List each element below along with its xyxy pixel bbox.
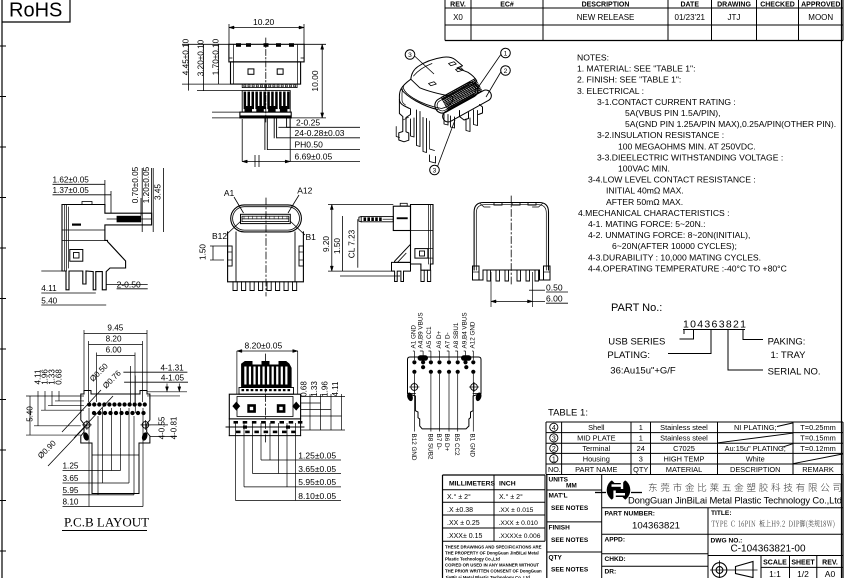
svg-text:PART No.:: PART No.:	[611, 302, 662, 314]
svg-text:B1: B1	[306, 232, 317, 242]
svg-text:MAT'L: MAT'L	[549, 493, 568, 500]
svg-text:B1 GND: B1 GND	[469, 434, 476, 458]
svg-text:4-1.31: 4-1.31	[161, 363, 185, 372]
pinout pads	[412, 360, 416, 364]
table diagonals	[777, 423, 793, 427]
svg-text:0.68: 0.68	[300, 381, 309, 397]
svg-text:QTY: QTY	[633, 465, 648, 474]
front view top-center	[229, 38, 304, 150]
svg-text:36:Au15u"+G/F: 36:Au15u"+G/F	[610, 366, 676, 377]
svg-text:THE PRIOR WRITTEN CONSENT OF D: THE PRIOR WRITTEN CONSENT OF DongGuan	[445, 569, 542, 574]
revision table	[445, 40, 843, 42]
svg-text:SCALE: SCALE	[763, 560, 787, 567]
svg-text:100VAC MIN.: 100VAC MIN.	[618, 164, 670, 174]
svg-text:X.° ± 2°: X.° ± 2°	[499, 493, 523, 501]
svg-text:COPIED OR USED IN ANY MANNER W: COPIED OR USED IN ANY MANNER WITHOUT	[445, 563, 539, 568]
svg-text:Au:15u" PLATING;: Au:15u" PLATING;	[725, 444, 786, 453]
svg-text:DR:: DR:	[605, 569, 617, 576]
side view dims	[104, 180, 106, 207]
svg-text:4.11: 4.11	[41, 284, 57, 293]
leader PLATING	[668, 330, 711, 354]
svg-text:TABLE 1:: TABLE 1:	[548, 408, 588, 419]
svg-text:24-0.28±0.03: 24-0.28±0.03	[295, 128, 345, 138]
svg-text:4.MECHANICAL CHARACTERISTICS :: 4.MECHANICAL CHARACTERISTICS :	[578, 208, 730, 218]
svg-text:THESE DRAWINGS AND SPECIFICATI: THESE DRAWINGS AND SPECIFICATIONS ARE	[445, 544, 542, 549]
svg-text:A1 GND: A1 GND	[411, 325, 418, 349]
pcb dims right 4-1.31 4-1.05	[130, 366, 132, 405]
dim 10.20	[228, 24, 230, 44]
svg-text:A12 GND: A12 GND	[470, 321, 477, 348]
svg-text:8.20±0.05: 8.20±0.05	[245, 341, 283, 351]
svg-text:3.20±0.10: 3.20±0.10	[197, 39, 206, 76]
leader PAKING	[743, 330, 763, 340]
svg-text:A0: A0	[825, 569, 836, 578]
svg-text:SERIAL NO.: SERIAL NO.	[768, 367, 821, 378]
svg-text:.XX ± 0.015: .XX ± 0.015	[499, 507, 534, 514]
svg-text:INCH: INCH	[499, 481, 516, 488]
svg-text:Housing: Housing	[583, 454, 610, 463]
svg-text:HIGH TEMP: HIGH TEMP	[664, 454, 705, 463]
callout circle 3 bottom	[430, 165, 440, 175]
svg-text:USB SERIES: USB SERIES	[608, 337, 665, 348]
company cell with logo	[602, 507, 843, 509]
svg-text:B5 CC2: B5 CC2	[453, 434, 460, 457]
svg-text:8.20: 8.20	[106, 335, 122, 344]
callout circle 2	[501, 66, 511, 76]
svg-text:A9,B4 VBUS: A9,B4 VBUS	[461, 312, 468, 348]
svg-text:CHECKED: CHECKED	[760, 2, 795, 9]
pin-out footprint view	[406, 355, 482, 429]
svg-text:AFTER 50mΩ MAX.: AFTER 50mΩ MAX.	[606, 197, 683, 207]
side view left	[62, 202, 152, 290]
svg-text:A7 D-: A7 D-	[444, 332, 451, 348]
svg-text:3: 3	[639, 454, 643, 463]
svg-text:2: 2	[552, 446, 556, 453]
svg-text:FINISH: FINISH	[549, 525, 571, 532]
svg-text:.XXX ± 0.010: .XXX ± 0.010	[499, 520, 539, 527]
svg-text:4.45±0.10: 4.45±0.10	[182, 38, 191, 75]
svg-text:10.20: 10.20	[253, 17, 275, 27]
svg-text:.X ±0.38: .X ±0.38	[447, 507, 473, 514]
isometric terminal hatch	[441, 78, 476, 97]
svg-text:01/23'21: 01/23'21	[675, 13, 706, 22]
svg-text:10.00: 10.00	[310, 70, 320, 92]
svg-text:.XXX± 0.15: .XXX± 0.15	[447, 533, 482, 540]
svg-text:1.50: 1.50	[199, 244, 208, 260]
dims 4.45 3.20 1.70 left side	[182, 43, 229, 45]
svg-text:3-4.LOW LEVEL CONTACT RESISTAN: 3-4.LOW LEVEL CONTACT RESISTANCE :	[588, 175, 756, 185]
dims 0.50 6.00	[529, 289, 545, 291]
svg-text:PAKING:: PAKING:	[768, 337, 806, 348]
svg-text:3.65: 3.65	[63, 474, 79, 483]
svg-text:REV.: REV.	[450, 2, 466, 9]
svg-text:PLATING:: PLATING:	[607, 350, 650, 361]
side view right mirrored	[359, 203, 433, 281]
svg-text:3. ELECTRICAL :: 3. ELECTRICAL :	[577, 86, 644, 96]
pinout top labels	[413, 351, 415, 360]
svg-text:B12: B12	[212, 231, 227, 241]
pinout bottom labels	[413, 374, 415, 432]
svg-text:MID PLATE: MID PLATE	[577, 434, 616, 443]
svg-text:1.96: 1.96	[321, 381, 330, 397]
svg-text:1.33: 1.33	[310, 381, 319, 397]
svg-text:JTJ: JTJ	[728, 13, 741, 22]
svg-text:6.00: 6.00	[106, 345, 122, 354]
pcb layout view	[81, 391, 150, 494]
svg-text:DESCRIPTION: DESCRIPTION	[730, 465, 781, 474]
svg-text:PART NAME: PART NAME	[575, 465, 617, 474]
svg-text:A6 D+: A6 D+	[436, 331, 443, 349]
svg-text:NEW RELEASE: NEW RELEASE	[577, 13, 635, 22]
svg-text:MILLIMETERS: MILLIMETERS	[449, 481, 496, 488]
svg-text:3-1.CONTACT CURRENT RATING :: 3-1.CONTACT CURRENT RATING :	[597, 97, 736, 107]
svg-text:3: 3	[433, 168, 437, 175]
svg-text:MATERIAL: MATERIAL	[666, 465, 702, 474]
svg-text:5A(VBUS PIN 1.5A/PIN),: 5A(VBUS PIN 1.5A/PIN),	[625, 108, 721, 118]
svg-text:QTY: QTY	[549, 555, 563, 562]
svg-text:1.50: 1.50	[333, 238, 342, 254]
svg-text:4-3.DURABILITY : 10,000 MATING: 4-3.DURABILITY : 10,000 MATING CYCLES.	[588, 252, 761, 262]
svg-text:B6 D+: B6 D+	[443, 434, 450, 452]
svg-text:PART NUMBER:: PART NUMBER:	[605, 511, 655, 518]
svg-text:5.95±0.05: 5.95±0.05	[298, 477, 336, 487]
svg-text:1.25±0.05: 1.25±0.05	[298, 450, 336, 460]
svg-text:TITLE:: TITLE:	[711, 510, 732, 517]
svg-text:THE PROPERTY OF DongGuan JinBi: THE PROPERTY OF DongGuan JinBiLai Metal	[445, 550, 539, 555]
svg-text:2. FINISH: SEE "TABLE 1":: 2. FINISH: SEE "TABLE 1":	[577, 75, 681, 85]
svg-text:8.10: 8.10	[63, 498, 79, 507]
svg-text:8.10±0.05: 8.10±0.05	[298, 491, 336, 501]
svg-text:3: 3	[552, 436, 556, 443]
svg-text:SEE NOTES: SEE NOTES	[551, 567, 589, 574]
svg-text:0.70±0.05: 0.70±0.05	[131, 166, 140, 203]
pcb dims right rotated 4-0.55 4-0.81	[145, 424, 168, 426]
svg-text:A8 SBU1: A8 SBU1	[453, 322, 460, 348]
bottom middle view	[226, 354, 304, 443]
svg-text:0.50: 0.50	[546, 283, 563, 293]
svg-text:1: 1	[639, 423, 643, 432]
svg-text:CHKD:: CHKD:	[605, 556, 626, 563]
svg-text:1.62±0.05: 1.62±0.05	[53, 175, 90, 184]
svg-text:SHEET: SHEET	[791, 560, 815, 567]
svg-text:REV.: REV.	[822, 560, 838, 567]
dims 9.20 1.50 CL7.23	[328, 204, 393, 206]
svg-text:REMARK: REMARK	[802, 465, 834, 474]
svg-text:MOON: MOON	[808, 13, 833, 22]
svg-text:3-2.INSULATION RESISTANCE :: 3-2.INSULATION RESISTANCE :	[597, 130, 724, 140]
svg-text:6.69±0.05: 6.69±0.05	[295, 152, 333, 162]
svg-text:X0: X0	[453, 13, 463, 22]
svg-text:1.70±0.10: 1.70±0.10	[212, 38, 221, 75]
svg-text:A1: A1	[224, 188, 235, 198]
svg-text:104363821: 104363821	[632, 520, 680, 531]
svg-text:APPROVED: APPROVED	[801, 2, 840, 9]
svg-text:PH0.50: PH0.50	[295, 140, 324, 150]
svg-text:1: 1	[504, 51, 508, 58]
svg-text:1.25: 1.25	[63, 462, 79, 471]
isometric legs and feet	[396, 100, 482, 164]
svg-text:B12 GND: B12 GND	[410, 434, 417, 461]
pcb layout dims top	[83, 330, 85, 391]
rear view far right	[473, 196, 551, 286]
tolerance table	[443, 474, 546, 476]
appd / dwg no cells	[602, 553, 708, 555]
svg-text:3.45: 3.45	[154, 184, 163, 200]
svg-text:EC#: EC#	[500, 2, 514, 9]
svg-text:5.40: 5.40	[26, 406, 35, 422]
svg-text:Stainless steel: Stainless steel	[660, 434, 708, 443]
svg-text:DATE: DATE	[680, 2, 699, 9]
sheet right border	[841, 0, 843, 578]
svg-text:DongGuan JinBiLai Metal Plasti: DongGuan JinBiLai Metal Plastic Technolo…	[628, 495, 842, 506]
leader USB SERIES	[680, 330, 694, 340]
svg-text:4-0.55: 4-0.55	[158, 416, 167, 439]
svg-text:1: 1	[639, 434, 643, 443]
svg-text:1:1: 1:1	[769, 569, 781, 578]
chkd / dr cells	[602, 565, 708, 567]
front view receptacle face	[228, 198, 304, 296]
svg-text:Stainless steel: Stainless steel	[660, 423, 708, 432]
svg-text:NI PLATING;: NI PLATING;	[734, 423, 777, 432]
svg-text:4-4.OPERATING TEMPERATURE :-40: 4-4.OPERATING TEMPERATURE :-40°C TO +80°…	[588, 263, 787, 273]
svg-text:T=0.25mm: T=0.25mm	[800, 423, 836, 432]
svg-text:4-1.05: 4-1.05	[161, 374, 185, 383]
svg-text:B7 D-: B7 D-	[435, 434, 442, 450]
svg-text:MM: MM	[566, 483, 577, 490]
svg-text:0.68: 0.68	[55, 369, 64, 385]
svg-text:100 MEGAOHMS MIN. AT 250VDC.: 100 MEGAOHMS MIN. AT 250VDC.	[618, 141, 756, 151]
svg-text:104363821: 104363821	[683, 319, 747, 331]
svg-text:A12: A12	[297, 186, 312, 196]
pin callouts 2-0.25 24-0.28 PH0.50 6.69	[278, 126, 360, 128]
svg-text:X.° ± 2°: X.° ± 2°	[447, 493, 471, 501]
svg-text:24: 24	[637, 444, 645, 453]
svg-text:CL 7.23: CL 7.23	[348, 229, 357, 258]
svg-text:APPD:: APPD:	[605, 537, 626, 544]
svg-text:4.11: 4.11	[331, 381, 340, 397]
pinout mounting holes	[411, 384, 418, 391]
svg-text:3.65±0.05: 3.65±0.05	[298, 464, 336, 474]
svg-text:Terminal: Terminal	[582, 444, 610, 453]
svg-text:1/2: 1/2	[797, 569, 809, 578]
svg-text:A5 CC1: A5 CC1	[426, 326, 433, 349]
svg-text:3: 3	[408, 52, 412, 59]
part number cell	[602, 533, 708, 535]
svg-text:9.20: 9.20	[322, 236, 331, 252]
pcb layout dims left rotated	[26, 395, 84, 397]
svg-text:RoHS: RoHS	[9, 0, 62, 22]
title block frame	[546, 475, 548, 578]
RoHS box	[2, 0, 70, 22]
svg-text:3-3.DIEELECTRIC WITHSTANDING V: 3-3.DIEELECTRIC WITHSTANDING VOLTAGE :	[597, 152, 783, 162]
svg-text:5A(GND PIN 1.25A/PIN MAX),0.25: 5A(GND PIN 1.25A/PIN MAX),0.25A/PIN(OTHE…	[625, 119, 836, 129]
svg-text:6~20N(AFTER 10000 CYCLES);: 6~20N(AFTER 10000 CYCLES);	[612, 241, 737, 251]
svg-text:White: White	[746, 454, 765, 463]
leader SERIAL NO	[728, 330, 763, 371]
svg-text:SEE NOTES: SEE NOTES	[551, 505, 589, 512]
svg-text:5.95: 5.95	[63, 486, 79, 495]
svg-text:4-2. UNMATING FORCE: 8~20N(INI: 4-2. UNMATING FORCE: 8~20N(INITIAL),	[588, 230, 750, 240]
svg-text:1: 1	[552, 456, 556, 463]
svg-text:NO.: NO.	[548, 465, 561, 474]
svg-text:P.C.B LAYOUT: P.C.B LAYOUT	[64, 515, 149, 530]
svg-text:2: 2	[504, 68, 508, 75]
callout circle 3 top-left	[405, 50, 415, 60]
svg-text:4-0.81: 4-0.81	[170, 416, 179, 439]
isometric view of connector	[399, 57, 493, 124]
svg-text:1. MATERIAL: SEE "TABLE 1":: 1. MATERIAL: SEE "TABLE 1":	[577, 64, 696, 74]
svg-text:INITIAL 40mΩ MAX.: INITIAL 40mΩ MAX.	[606, 186, 684, 196]
svg-text:T=0.15mm: T=0.15mm	[800, 434, 836, 443]
svg-text:2-0.50: 2-0.50	[117, 279, 141, 289]
sheet left border	[1, 0, 3, 578]
svg-text:NOTES:: NOTES:	[577, 53, 609, 63]
svg-text:Plastic Technology Co.,Ltd: Plastic Technology Co.,Ltd	[445, 557, 500, 562]
svg-text:DRAWING: DRAWING	[717, 2, 751, 9]
svg-text:A4,B9 VBUS: A4,B9 VBUS	[418, 312, 425, 348]
svg-text:B8 SUB2: B8 SUB2	[426, 434, 433, 460]
svg-text:4-1. MATING FORCE: 5~20N.:: 4-1. MATING FORCE: 5~20N.:	[588, 219, 706, 229]
svg-text:.XXXX± 0.006: .XXXX± 0.006	[499, 533, 541, 540]
third angle projection symbol	[712, 563, 727, 578]
dim 10.00	[304, 43, 326, 45]
svg-text:C7025: C7025	[673, 444, 695, 453]
svg-text:2-0.25: 2-0.25	[296, 118, 320, 128]
svg-text:5.40: 5.40	[41, 296, 57, 305]
callout circle 1	[501, 48, 511, 58]
svg-text:9.45: 9.45	[107, 324, 123, 333]
svg-text:1.37±0.05: 1.37±0.05	[53, 186, 90, 195]
svg-text:1.20±0.05: 1.20±0.05	[142, 166, 151, 203]
svg-text:C-104363821-00: C-104363821-00	[731, 543, 806, 554]
svg-text:4: 4	[552, 425, 556, 432]
scale sheet rev	[761, 555, 843, 557]
svg-text:6.00: 6.00	[546, 294, 563, 304]
svg-text:SEE NOTES: SEE NOTES	[551, 537, 589, 544]
svg-text:T=0.12mm: T=0.12mm	[800, 444, 836, 453]
svg-text:Shell: Shell	[588, 423, 605, 432]
svg-text:.XX ± 0.25: .XX ± 0.25	[447, 520, 480, 527]
svg-text:DESCRIPTION: DESCRIPTION	[582, 2, 630, 9]
svg-text:1: TRAY: 1: TRAY	[771, 350, 807, 361]
pcb diameter labels	[62, 390, 101, 432]
